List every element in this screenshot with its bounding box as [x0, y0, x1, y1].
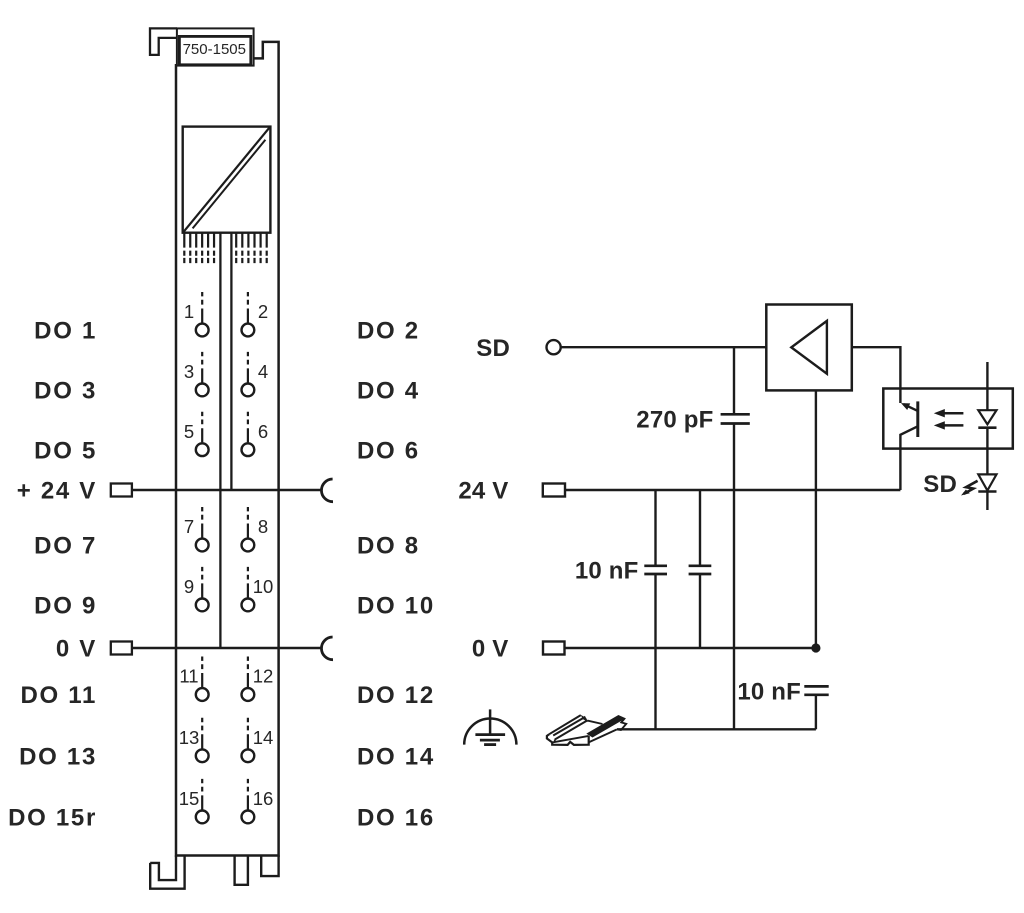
svg-text:DO 15r: DO 15r	[8, 805, 97, 832]
terminal 5 (left column)	[196, 412, 209, 456]
capacitor C4 10 nF	[804, 686, 828, 729]
svg-text:DO 8: DO 8	[357, 533, 420, 560]
terminal 0V box	[543, 642, 565, 655]
svg-text:DO 16: DO 16	[357, 805, 435, 832]
svg-text:DO 7: DO 7	[34, 533, 97, 560]
svg-text:750-1505: 750-1505	[183, 41, 246, 58]
internal 24V rail line	[230, 233, 232, 490]
capacitor C1 270 pF	[721, 347, 750, 729]
svg-text:DO 2: DO 2	[357, 318, 420, 345]
internal 0V rail line	[219, 233, 221, 648]
+24V jumper contact arc	[321, 479, 333, 502]
LED D1 (inside optocoupler)	[978, 362, 996, 474]
module body outline	[176, 42, 279, 856]
svg-text:5: 5	[184, 421, 194, 442]
phototransistor emitter arrowhead	[901, 403, 910, 410]
bottom foot middle	[235, 856, 248, 885]
terminal 8 (right column)	[242, 507, 255, 551]
svg-text:DO 1: DO 1	[34, 318, 97, 345]
junction dot 0V node	[811, 643, 820, 652]
bottom latch foot (left)	[150, 856, 184, 889]
wire 0V rail	[565, 647, 816, 649]
+24V terminal box	[111, 484, 132, 497]
terminal 14 (right column)	[242, 718, 255, 762]
terminal 24V box	[543, 484, 565, 497]
bottom foot right	[261, 856, 278, 877]
svg-text:0 V: 0 V	[56, 636, 97, 663]
0V wire	[132, 647, 322, 650]
svg-text:3: 3	[184, 361, 194, 382]
electronics block (square with diagonal)	[183, 127, 271, 233]
svg-text:8: 8	[258, 516, 268, 537]
svg-text:16: 16	[253, 788, 274, 809]
svg-text:10: 10	[253, 576, 274, 597]
svg-text:270 pF: 270 pF	[636, 406, 713, 433]
svg-text:4: 4	[258, 361, 268, 382]
svg-text:DO 12: DO 12	[357, 682, 435, 709]
svg-text:2: 2	[258, 301, 268, 322]
svg-text:DO 5: DO 5	[34, 437, 97, 464]
light arrow 2	[944, 424, 964, 427]
svg-text:9: 9	[184, 576, 194, 597]
DIN rail symbol	[547, 715, 626, 745]
earth bus wire	[617, 728, 816, 730]
amplifier U1 triangle	[791, 321, 827, 374]
terminal 12 (right column)	[242, 657, 255, 701]
svg-text:DO 4: DO 4	[357, 378, 420, 405]
svg-text:DO 10: DO 10	[357, 593, 435, 620]
svg-text:DO 13: DO 13	[19, 743, 97, 770]
svg-text:DO 3: DO 3	[34, 378, 97, 405]
light arrow 1	[944, 412, 964, 415]
svg-text:6: 6	[258, 421, 268, 442]
wire U1 output to optocoupler	[852, 347, 901, 403]
optocoupler box	[883, 389, 1013, 449]
svg-text:SD: SD	[476, 335, 510, 362]
svg-text:+ 24 V: + 24 V	[17, 478, 97, 505]
LED D2 SD indicator	[978, 474, 996, 510]
svg-text:11: 11	[179, 666, 198, 687]
svg-text:12: 12	[253, 666, 274, 687]
0V jumper contact arc	[321, 637, 333, 660]
terminal 15 (left column)	[196, 779, 209, 823]
terminal 13 (left column)	[196, 718, 209, 762]
functional earth symbol	[464, 709, 516, 744]
svg-text:13: 13	[179, 727, 200, 748]
capacitor C3 10 nF	[689, 490, 712, 648]
label box	[177, 28, 254, 65]
terminal 4 (right column)	[242, 352, 255, 396]
terminal 16 (right column)	[242, 779, 255, 823]
svg-text:10 nF: 10 nF	[737, 678, 801, 705]
0V terminal box	[111, 642, 132, 655]
terminal 10 (right column)	[242, 567, 255, 611]
terminal 6 (right column)	[242, 412, 255, 456]
+24V wire	[132, 489, 322, 492]
svg-text:14: 14	[253, 727, 274, 748]
svg-text:24 V: 24 V	[458, 478, 508, 505]
capacitor C2 10 nF	[644, 490, 667, 729]
wire U1 bottom to 0V node	[815, 390, 817, 648]
amplifier U1 box	[766, 305, 852, 391]
terminal 11 (left column)	[196, 657, 209, 701]
wire SD to amplifier	[562, 346, 767, 348]
terminal 2 (right column)	[242, 292, 255, 336]
terminal 1 (left column)	[196, 292, 209, 336]
svg-text:15: 15	[179, 788, 200, 809]
node SD terminal circle	[547, 340, 561, 354]
svg-text:0 V: 0 V	[472, 636, 509, 663]
svg-text:1: 1	[184, 301, 194, 322]
bus contacts left group	[184, 233, 214, 263]
phototransistor	[900, 401, 917, 490]
svg-text:DO 14: DO 14	[357, 743, 435, 770]
lightning arrow	[964, 481, 978, 494]
bus contacts right group	[236, 233, 267, 263]
svg-text:DO 6: DO 6	[357, 437, 420, 464]
terminal 3 (left column)	[196, 352, 209, 396]
svg-text:DO 11: DO 11	[20, 682, 97, 709]
svg-text:DO 9: DO 9	[34, 593, 97, 620]
top mounting hook	[150, 28, 177, 55]
wire 24V rail	[565, 489, 900, 491]
terminal 9 (left column)	[196, 567, 209, 611]
svg-text:7: 7	[184, 516, 194, 537]
svg-text:10 nF: 10 nF	[575, 557, 639, 584]
svg-text:SD: SD	[923, 471, 957, 498]
terminal 7 (left column)	[196, 507, 209, 551]
